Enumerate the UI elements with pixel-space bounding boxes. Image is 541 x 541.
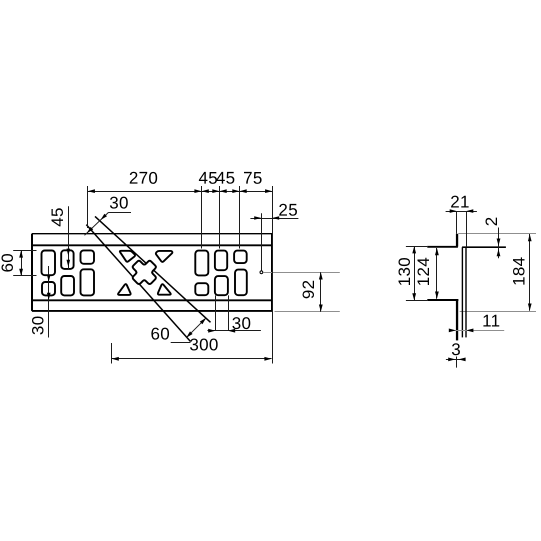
svg-text:60: 60 (151, 324, 171, 343)
svg-text:60: 60 (0, 253, 17, 273)
svg-text:3: 3 (451, 340, 461, 359)
svg-text:92: 92 (299, 280, 318, 300)
svg-text:300: 300 (189, 335, 218, 354)
svg-text:75: 75 (243, 169, 263, 188)
svg-text:30: 30 (29, 316, 48, 336)
svg-text:21: 21 (450, 192, 470, 211)
svg-text:2: 2 (482, 217, 501, 227)
svg-text:45: 45 (48, 207, 67, 227)
svg-text:30: 30 (109, 193, 129, 212)
svg-text:11: 11 (482, 311, 500, 330)
svg-text:184: 184 (510, 257, 529, 286)
svg-text:270: 270 (129, 169, 158, 188)
svg-text:25: 25 (278, 201, 298, 220)
svg-text:130: 130 (395, 257, 414, 286)
svg-text:124: 124 (414, 257, 433, 286)
svg-text:45: 45 (216, 169, 236, 188)
